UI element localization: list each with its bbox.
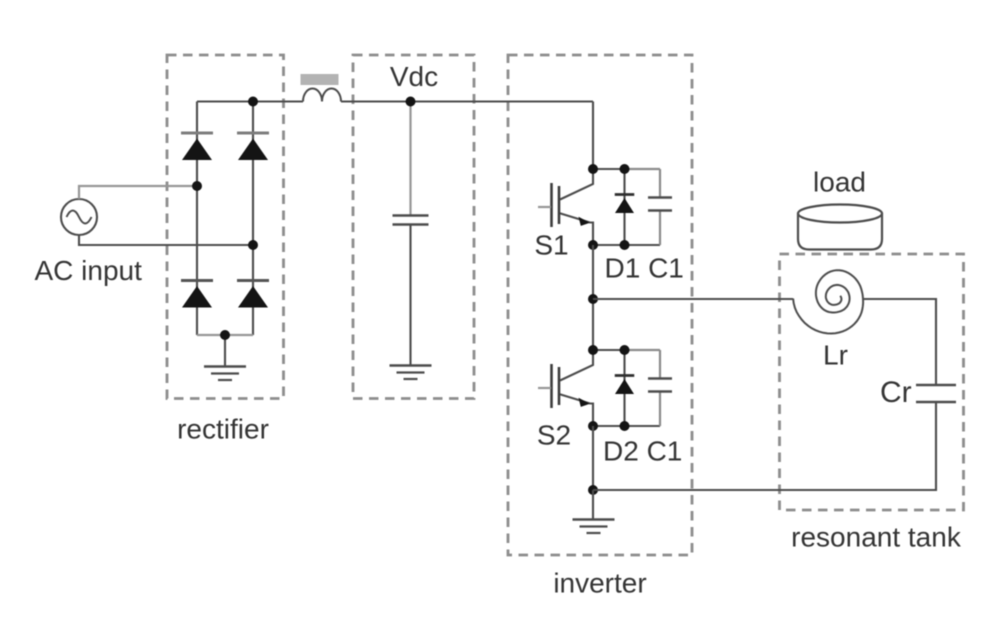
ground rectifier [204,367,246,381]
wire between inverter cells [592,245,594,350]
transistor S2 (IGBT) [538,350,593,426]
diode bridge top-left [181,133,213,160]
load cylinder body [798,214,882,250]
node AC lower [248,240,258,250]
node dots of cell S1 [588,164,598,174]
wire AC lower to bridge [79,235,253,245]
inductor choke windings [303,89,341,102]
bridge right column wire [252,102,254,336]
svg-text:Cr: Cr [880,376,912,409]
svg-text:S1: S1 [534,230,568,261]
wire inverter output to coil [593,298,793,300]
node bridge bottom [220,330,230,340]
DC link capacitor plates [393,214,429,216]
bridge left column wire [196,102,198,336]
load cylinder top ellipse [798,205,882,223]
svg-text:inverter: inverter [553,568,646,599]
DC link capacitor upper stem [409,102,411,216]
inductor choke core [301,74,339,85]
rectifier dashed box [167,55,284,399]
svg-text:D1 C1: D1 C1 [605,253,684,284]
svg-text:AC input: AC input [35,255,143,286]
svg-text:resonant tank: resonant tank [791,522,962,553]
ground Vdc [390,366,432,380]
diode bridge bottom-left [181,281,213,308]
ground inverter [573,520,615,534]
capacitor C1b plates [648,377,672,379]
node AC upper [192,181,202,191]
diode D2 [615,376,635,395]
capacitor C1a branch wires [659,169,661,245]
diode bridge bottom-right [237,281,269,308]
wire AC upper to bridge [79,186,197,199]
wire S2 emitter to bottom node [592,426,594,490]
node Vdc [406,97,416,107]
wire top rail of cell S2 [593,349,625,351]
node dots of cell S2 [588,345,598,355]
wire bottom rail of cell S1 [593,244,660,246]
transistor S1 (IGBT) [538,169,593,245]
diode D2 vertical wire [623,350,625,426]
wire top rail of cell S1 [593,168,625,170]
svg-text:D2 C1: D2 C1 [603,436,682,467]
wire coil to Cr [862,299,936,384]
inductor Lr spiral work coil [793,270,863,333]
AC source V1 [61,199,97,235]
Vdc dashed box [353,55,474,399]
capacitor C1a plates [648,196,672,198]
inverter dashed box [508,55,692,555]
resonant tank dashed box [780,254,964,510]
bridge ground stem [224,335,226,366]
capacitor Cr plates [916,384,956,386]
diode bridge top-right [237,133,269,160]
bridge bottom join wire [197,334,253,336]
node bridge top bus [248,97,258,107]
svg-text:Lr: Lr [823,340,848,371]
svg-text:Vdc: Vdc [390,61,438,92]
diode D1 [615,195,635,214]
svg-text:rectifier: rectifier [177,414,269,445]
node inverter midpoint [588,294,598,304]
svg-text:load: load [813,167,866,198]
wire Cr to bottom return [593,403,936,490]
wire bottom rail of cell S2 [593,425,660,427]
node inverter bottom [588,485,598,495]
DC link capacitor lower stem [409,225,411,365]
svg-text:S2: S2 [537,420,571,451]
diode D1 vertical wire [623,169,625,245]
capacitor C1b branch wires [659,350,661,426]
inverter ground stem [592,490,594,519]
wire top DC bus [197,102,593,170]
